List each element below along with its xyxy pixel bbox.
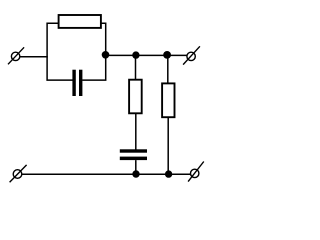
ground rail wire (bottom) — [22, 173, 191, 175]
wire right side of R1/C1 loop — [82, 23, 106, 80]
terminal input (top-left) — [8, 47, 24, 64]
junction dot: top rail / R2 branch — [132, 51, 139, 58]
junction dot: R1/C1 to top rail — [102, 51, 110, 59]
junction dot: top rail / R3 branch — [163, 51, 171, 59]
wire R2 to C2 — [135, 113, 137, 150]
terminal output (top-right) — [183, 46, 200, 64]
wire top rail to output — [106, 54, 187, 56]
resistor R3 — [162, 83, 174, 117]
capacitor C2 — [120, 149, 147, 160]
capacitor C1 — [72, 70, 82, 96]
terminal ground (bottom-left) — [10, 165, 27, 182]
wire top rail to R2 — [135, 55, 137, 79]
wire left side of R1/C1 loop — [47, 23, 73, 80]
wire R3 to ground rail — [167, 117, 169, 174]
wire C2 to ground rail — [135, 160, 137, 174]
resistor R1 — [59, 15, 101, 28]
wire top rail to R3 — [167, 55, 169, 83]
terminal ground (bottom-right) — [188, 162, 204, 182]
wire input terminal to RC network — [20, 56, 48, 58]
resistor R2 — [129, 80, 142, 114]
junction dot: R3 branch / ground rail — [165, 170, 172, 177]
junction dot: C2 branch / ground rail — [132, 170, 139, 177]
